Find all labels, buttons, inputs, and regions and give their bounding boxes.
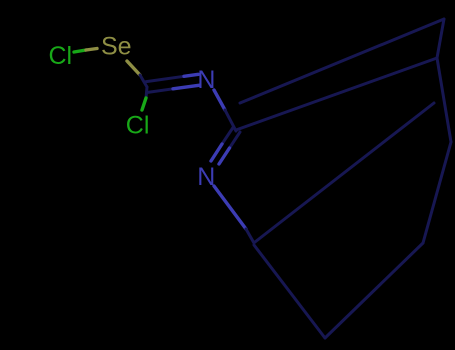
svg-text:N: N bbox=[197, 66, 215, 94]
wire: double bond C1=N1 main line bbox=[148, 89, 173, 93]
wire: bond N1-C2 bbox=[214, 90, 225, 110]
wire: ring edge C2 up-right (Y2) bbox=[236, 58, 437, 130]
wire: bond N2 to ring ipso bbox=[214, 186, 246, 229]
svg-text:N: N bbox=[197, 163, 215, 191]
wire: bond Se-C1 bbox=[127, 61, 140, 75]
wire: bond C1-Cl2 bbox=[146, 87, 147, 98]
wire: right edge upper bbox=[437, 58, 451, 142]
wire: bottom-right edge L5 bbox=[325, 243, 423, 338]
wire: ring upper long edge bbox=[240, 19, 444, 103]
svg-text:Cl: Cl bbox=[49, 42, 73, 70]
svg-text:Se: Se bbox=[101, 33, 132, 61]
svg-text:Cl: Cl bbox=[126, 112, 150, 140]
wire: bottom-left edge L4 bbox=[254, 245, 325, 338]
wire: right edge lower bbox=[423, 142, 451, 243]
wire: top right cap bbox=[437, 19, 444, 58]
wire: double bond C2=N2 inner line bbox=[230, 132, 241, 148]
wire: bond Cl1-Se bbox=[74, 50, 86, 52]
wire: double bond C2=N2 main line bbox=[222, 128, 233, 145]
wire: double bond C1=N1 inner line bbox=[146, 76, 184, 81]
wire: internal diagonal L1 bbox=[255, 103, 434, 242]
